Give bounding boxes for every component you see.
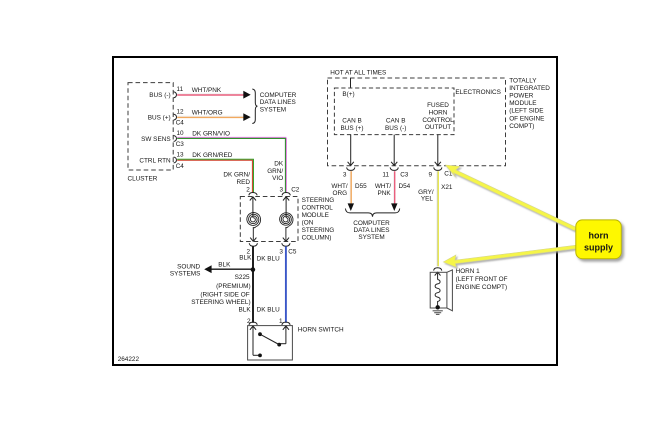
clockspring coil left exit hook — [253, 227, 256, 242]
svg-text:C2: C2 — [291, 186, 300, 193]
SCM pin 3 female arc (bottom) — [282, 243, 290, 246]
svg-text:RED: RED — [237, 179, 251, 186]
wire WHT/ORG (TIPM to data lines) — [350, 171, 351, 204]
svg-text:DK BLU: DK BLU — [257, 307, 280, 314]
cluster pin 10 connector arc — [174, 136, 177, 142]
svg-text:D55: D55 — [355, 183, 367, 190]
horn 1 coil — [435, 280, 440, 306]
horn switch contact line pin1 side — [279, 343, 286, 345]
svg-text:C4: C4 — [176, 120, 185, 127]
steering control module box — [240, 197, 298, 242]
svg-text:BUS (+): BUS (+) — [341, 125, 364, 132]
SCM pin 2 female arc (bottom) — [249, 243, 257, 246]
svg-text:HORN 1: HORN 1 — [456, 268, 481, 275]
svg-text:DK BLU: DK BLU — [257, 256, 280, 263]
CAN B BUS (-) label — [385, 118, 406, 132]
SCM pin 3 male arrow (top) — [283, 197, 289, 218]
CAN B BUS (+) label — [341, 118, 364, 132]
horn switch box — [248, 326, 293, 360]
arrow WHT/PNK to computer data lines — [243, 91, 250, 99]
GRY/YEL wire label — [418, 189, 434, 202]
horn supply callout text — [584, 231, 613, 253]
svg-text:CLUSTER: CLUSTER — [128, 176, 158, 183]
svg-text:OUTPUT: OUTPUT — [425, 124, 451, 131]
svg-text:BUS (+): BUS (+) — [148, 115, 171, 122]
yellow annotation arrow lower (to horn 1) — [443, 245, 576, 267]
SCM pin 2 female arc (top) — [249, 193, 257, 196]
computer data lines system label (right) — [353, 220, 390, 241]
svg-text:supply: supply — [584, 243, 613, 253]
svg-text:BLK: BLK — [239, 307, 252, 314]
wire DK BLU (SCM to horn switch) — [285, 246, 287, 322]
horn 1 label — [456, 268, 508, 291]
wire GRY/YEL (TIPM to horn) — [437, 171, 438, 266]
underbrace computer data lines (right) — [345, 209, 399, 217]
svg-text:10: 10 — [177, 130, 185, 137]
horn switch pin 2 male arrow — [250, 326, 256, 355]
svg-text:WHT/ORG: WHT/ORG — [192, 110, 223, 117]
fused horn control output label — [422, 102, 454, 131]
TIPM label — [509, 77, 550, 130]
horn switch fixed contact dot upper — [258, 332, 262, 336]
svg-text:TOTALLY: TOTALLY — [509, 77, 537, 84]
svg-text:ORG: ORG — [333, 190, 348, 197]
svg-text:STEERING: STEERING — [302, 197, 335, 204]
svg-text:BLK: BLK — [239, 255, 252, 262]
electronics inner box — [334, 88, 454, 135]
cluster pin 12 connector arc — [174, 114, 177, 120]
arrow WHT/ORG to computer data lines — [243, 113, 250, 121]
svg-text:DATA LINES: DATA LINES — [354, 227, 390, 234]
TIPM pin 3 female arc — [347, 167, 355, 170]
TIPM outer box — [328, 78, 506, 166]
svg-text:CONTROL: CONTROL — [302, 204, 334, 211]
clockspring coil right — [280, 213, 293, 227]
svg-text:SOUND: SOUND — [177, 263, 200, 270]
brace for computer data lines (left) — [252, 89, 257, 124]
WHT/ORG label (right) — [331, 183, 348, 197]
horn switch fixed contact dot lower — [258, 354, 262, 358]
svg-text:SYSTEM: SYSTEM — [358, 234, 384, 241]
svg-text:DK: DK — [274, 161, 284, 168]
horn 1 female arc — [434, 268, 442, 271]
horn 1 male arrow — [435, 272, 441, 280]
svg-text:COLUMN): COLUMN) — [302, 234, 332, 241]
horn supply callout box — [576, 220, 622, 259]
horn switch pin 2 female arc — [249, 322, 257, 325]
svg-text:YEL: YEL — [421, 195, 434, 202]
WHT/PNK label (right) — [375, 183, 392, 197]
svg-text:3: 3 — [343, 172, 347, 179]
svg-text:horn: horn — [589, 231, 609, 241]
svg-text:C3: C3 — [176, 141, 185, 148]
svg-text:CAN B: CAN B — [342, 118, 362, 125]
svg-text:X21: X21 — [441, 184, 453, 191]
horn switch contact line pin2 side — [253, 354, 260, 356]
svg-text:BLK: BLK — [218, 261, 231, 268]
svg-text:SYSTEMS: SYSTEMS — [170, 271, 201, 278]
feed line from hot at all times — [350, 78, 352, 88]
svg-text:HORN SWITCH: HORN SWITCH — [298, 326, 344, 333]
svg-text:(LEFT FRONT OF: (LEFT FRONT OF — [456, 276, 508, 283]
svg-text:S225: S225 — [235, 274, 250, 281]
TIPM pin 11 female arc — [390, 167, 398, 170]
svg-text:CONTROL: CONTROL — [422, 117, 454, 124]
svg-text:WHT/: WHT/ — [375, 183, 392, 190]
svg-text:CTRL RTN: CTRL RTN — [139, 157, 171, 164]
horn switch blade — [260, 334, 279, 344]
svg-text:SW SENS: SW SENS — [141, 136, 170, 143]
svg-text:11: 11 — [177, 86, 184, 93]
svg-text:(LEFT SIDE: (LEFT SIDE — [509, 108, 543, 115]
svg-text:BUS (-): BUS (-) — [149, 92, 170, 99]
DK GRN/VIO stacked label at SCM pin 3 — [267, 161, 284, 182]
svg-text:PNK: PNK — [377, 190, 391, 197]
wire WHT/PNK (TIPM to data lines) — [394, 171, 395, 204]
splice S225 junction dot — [251, 267, 256, 272]
svg-text:ENGINE COMPT): ENGINE COMPT) — [456, 284, 507, 291]
arrow to sound systems — [204, 265, 211, 273]
wire BLK (SCM to horn switch) — [252, 246, 254, 322]
svg-text:WHT/PNK: WHT/PNK — [192, 87, 222, 94]
svg-text:HORN: HORN — [429, 110, 448, 117]
DK GRN/RED stacked label at SCM pin 2 — [223, 172, 250, 186]
wire DK GRN/VIO (cluster to SCM) — [177, 137, 286, 192]
svg-text:MODULE: MODULE — [302, 212, 329, 219]
svg-text:13: 13 — [177, 151, 185, 158]
horn switch moving contact dot — [277, 343, 281, 347]
SCM pin 2 male arrow (top) — [250, 197, 256, 218]
CAN B BUS (-) internal wire with arrow — [391, 135, 397, 166]
svg-text:264222: 264222 — [118, 356, 140, 363]
clockspring coil left — [247, 213, 261, 227]
svg-text:9: 9 — [429, 172, 433, 179]
computer data lines system label (left) — [260, 92, 297, 113]
svg-text:DATA LINES: DATA LINES — [260, 99, 296, 106]
arrow WHT/PNK down — [391, 203, 397, 211]
svg-text:(RIGHT SIDE OF: (RIGHT SIDE OF — [200, 291, 249, 298]
svg-text:B(+): B(+) — [342, 91, 354, 98]
svg-text:COMPUTER: COMPUTER — [353, 220, 390, 227]
horn 1 ground dot — [436, 305, 440, 309]
svg-text:(ON: (ON — [302, 219, 314, 226]
horn switch pin 1 female arc — [282, 322, 290, 325]
splice S225 label — [191, 274, 250, 306]
svg-text:POWER: POWER — [509, 93, 534, 100]
svg-text:C4: C4 — [176, 163, 185, 170]
svg-text:SYSTEM: SYSTEM — [260, 106, 286, 113]
svg-text:12: 12 — [177, 109, 185, 116]
wire BLK to sound systems — [211, 268, 252, 270]
svg-text:3: 3 — [279, 186, 283, 193]
arrow WHT/ORG down — [348, 203, 354, 211]
cluster pin 11 connector arc — [174, 92, 177, 98]
svg-text:DK GRN/VIO: DK GRN/VIO — [192, 130, 230, 137]
svg-text:BUS (-): BUS (-) — [385, 125, 406, 132]
svg-text:MODULE: MODULE — [509, 100, 536, 107]
SCM pin 3 bottom arrow — [283, 238, 289, 242]
svg-text:INTEGRATED: INTEGRATED — [509, 85, 550, 92]
svg-text:C3: C3 — [400, 172, 409, 179]
wire WHT/PNK (cluster to data lines) — [177, 94, 244, 95]
svg-text:WHT/: WHT/ — [331, 183, 348, 190]
wire DK GRN/RED (cluster to SCM) — [177, 159, 253, 192]
yellow annotation arrow upper (to fused horn output) — [446, 165, 577, 231]
svg-text:STEERING: STEERING — [302, 227, 335, 234]
TIPM pin 9 female arc — [434, 167, 442, 170]
svg-text:3: 3 — [279, 249, 283, 256]
svg-text:OF ENGINE: OF ENGINE — [509, 115, 544, 122]
wire WHT/ORG (cluster to data lines) — [177, 116, 244, 117]
fused horn output internal wire with arrow — [435, 135, 441, 166]
horn switch pin 1 male arrow — [283, 326, 289, 344]
SCM pin 3 female arc (top) — [282, 193, 290, 196]
svg-text:D54: D54 — [399, 183, 411, 190]
CAN B BUS (+) internal wire with arrow — [348, 135, 354, 166]
svg-text:C5: C5 — [288, 249, 297, 256]
svg-text:(PREMIUM): (PREMIUM) — [216, 283, 250, 290]
clockspring coil right exit hook — [286, 226, 289, 241]
steering control module label — [302, 197, 335, 242]
svg-text:CAN B: CAN B — [386, 118, 406, 125]
svg-text:GRN/: GRN/ — [267, 168, 283, 175]
SCM pin 2 bottom arrow — [250, 238, 256, 242]
svg-text:DK GRN/RED: DK GRN/RED — [192, 152, 233, 159]
svg-text:VIO: VIO — [272, 175, 283, 182]
svg-text:2: 2 — [246, 186, 250, 193]
cluster pin 13 connector arc — [174, 157, 177, 163]
svg-text:COMPT): COMPT) — [509, 123, 534, 130]
svg-text:FUSED: FUSED — [427, 102, 449, 109]
svg-text:DK GRN/: DK GRN/ — [223, 172, 250, 179]
cluster box — [128, 83, 173, 170]
sound systems label — [170, 263, 201, 277]
ground symbol — [433, 311, 443, 315]
svg-text:STEERING WHEEL): STEERING WHEEL) — [191, 299, 250, 306]
svg-text:COMPUTER: COMPUTER — [260, 92, 297, 99]
svg-text:11: 11 — [382, 172, 389, 179]
horn 1 body — [430, 270, 452, 311]
svg-text:ELECTRONICS: ELECTRONICS — [455, 89, 500, 96]
svg-text:HOT AT ALL TIMES: HOT AT ALL TIMES — [330, 70, 386, 77]
